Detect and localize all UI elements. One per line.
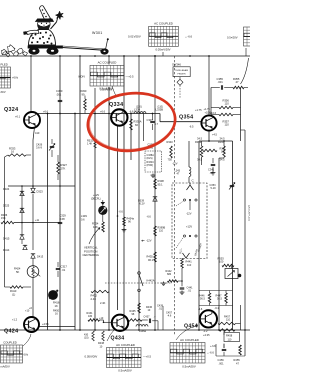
svg-text:110: 110 <box>226 319 231 322</box>
wire G2 tick <box>245 48 247 56</box>
svg-text:+-6.8: +-6.8 <box>210 345 216 348</box>
diode D323 <box>31 188 35 192</box>
svg-text:16: 16 <box>11 150 14 154</box>
svg-text:100: 100 <box>219 260 224 264</box>
svg-text:AC COUPLED: AC COUPLED <box>154 22 173 26</box>
wire rail x95 <box>94 88 96 114</box>
wire rail x60 <box>59 56 61 330</box>
svg-text:D323: D323 <box>37 190 44 194</box>
svg-text:.01: .01 <box>159 308 163 311</box>
svg-text:V/DIV: V/DIV <box>78 75 85 79</box>
wire rail x199 Q354 emitter column <box>198 141 200 330</box>
svg-text:10K: 10K <box>93 225 98 229</box>
wire rung y186 <box>8 185 75 187</box>
graticule G2 right edge (cut) <box>244 27 258 46</box>
resistor R456 boxed <box>224 333 240 342</box>
svg-text:680: 680 <box>167 273 172 276</box>
capacitor C326 variable <box>50 145 55 147</box>
svg-text:.001: .001 <box>56 92 62 96</box>
ground mid <box>123 228 125 230</box>
capacitor C341 <box>211 163 216 165</box>
svg-text:(10): (10) <box>84 337 89 340</box>
svg-text:W301: W301 <box>92 31 103 35</box>
svg-text:Q334: Q334 <box>109 102 123 108</box>
svg-text:.01: .01 <box>188 290 192 293</box>
svg-text:―+0.5: ―+0.5 <box>143 355 151 359</box>
svg-text:+6.6: +6.6 <box>100 109 106 113</box>
svg-text:C338A: C338A <box>147 154 155 157</box>
svg-text:34.5: 34.5 <box>197 137 203 141</box>
svg-text:(DECPL): (DECPL) <box>91 197 101 200</box>
svg-text:4.7: 4.7 <box>155 123 159 126</box>
diode D413 <box>31 254 35 258</box>
svg-text:150: 150 <box>221 151 226 154</box>
resistor R357 <box>219 113 233 116</box>
svg-text:+6.1: +6.1 <box>15 115 21 119</box>
graticule G1 top-middle <box>149 26 179 46</box>
transistor Q324 <box>24 112 40 128</box>
resistor R455b <box>239 345 242 355</box>
svg-text:2.4K: 2.4K <box>100 301 106 305</box>
wire leader G7-Q454 <box>176 325 198 340</box>
inductor L436 <box>136 325 148 327</box>
wire G2 leader curve <box>241 58 249 84</box>
svg-text:(1): (1) <box>12 292 15 296</box>
resistor R442 <box>168 280 179 283</box>
switch contact row 2 <box>183 235 185 237</box>
wire bottom horizontal bus -12V <box>0 329 250 331</box>
capacitor C456 <box>222 348 227 350</box>
svg-text:R458: R458 <box>226 334 233 338</box>
svg-text:↔-6.6: ↔-6.6 <box>185 35 193 39</box>
svg-text:AC COUPLED: AC COUPLED <box>98 61 117 65</box>
svg-text:3.6-9: 3.6-9 <box>36 146 42 150</box>
svg-text:+12V: +12V <box>186 225 192 229</box>
wire rung y222.5 <box>14 222 60 224</box>
svg-text:L436a: L436a <box>139 330 147 333</box>
potentiometer R424 <box>27 266 39 278</box>
resistor R435 <box>129 319 143 322</box>
wire rail x80 <box>79 56 81 330</box>
svg-text:K442A: K442A <box>147 279 155 283</box>
wire stub x143.5 <box>143 114 145 142</box>
capacitor C355 <box>220 85 222 90</box>
diode D339 zener <box>153 197 157 201</box>
wire rail x209 Q354 column <box>208 56 210 97</box>
svg-text:+10.6: +10.6 <box>205 112 212 115</box>
svg-text:0.5×/DIV: 0.5×/DIV <box>227 36 238 40</box>
wire leader G5-Q424 <box>23 334 31 346</box>
svg-text:0.68: 0.68 <box>60 217 66 221</box>
svg-text:+4.55: +4.55 <box>42 322 49 326</box>
graticule G6 bottom-middle <box>107 348 142 368</box>
svg-text:-0.6: -0.6 <box>119 211 124 214</box>
svg-text:-6.6: -6.6 <box>147 216 152 219</box>
resistor R436 <box>138 303 141 313</box>
svg-text:+4.35: +4.35 <box>203 333 210 337</box>
wire rail x124 <box>123 56 125 330</box>
svg-text:SW346: SW346 <box>172 63 181 67</box>
svg-text:R340: R340 <box>167 140 174 144</box>
svg-text:15K: 15K <box>1 216 6 220</box>
diode D415 <box>20 235 24 239</box>
switch contact row 1 <box>183 199 185 201</box>
svg-text:D414: D414 <box>3 248 10 252</box>
svg-text:/DIV: /DIV <box>1 90 6 94</box>
svg-text:110: 110 <box>159 230 164 233</box>
resistor R432 <box>91 290 109 293</box>
wire rail x155 <box>154 56 156 330</box>
svg-text:+11: +11 <box>35 219 40 222</box>
inductor L334 <box>134 112 146 114</box>
capacitor C330 <box>58 99 63 101</box>
wire rail x109 <box>108 56 110 65</box>
svg-text:0.6: 0.6 <box>81 217 85 221</box>
wire rail x117.5 <box>117 126 119 310</box>
wire rail x31 Q324 collector column <box>30 56 32 112</box>
capacitor C437 <box>148 319 150 324</box>
svg-text:0.5mA/DIV: 0.5mA/DIV <box>118 369 132 373</box>
svg-text:+4.5: +4.5 <box>212 134 218 137</box>
svg-text:110: 110 <box>228 338 232 341</box>
transistor Q424 <box>24 317 39 332</box>
resistor R356 <box>219 106 233 109</box>
diode D324 <box>20 191 24 195</box>
svg-text:34.5: 34.5 <box>220 158 226 162</box>
svg-text:―+0.5: ―+0.5 <box>126 75 134 79</box>
svg-text:THRU-BEAM: THRU-BEAM <box>175 69 188 72</box>
potentiometer R434 position <box>98 206 107 215</box>
svg-text:0.5mA/DIV: 0.5mA/DIV <box>100 88 113 92</box>
svg-text:.001: .001 <box>219 361 225 365</box>
transistor Q334 <box>111 109 127 125</box>
graticule G7 bottom-right <box>170 343 205 364</box>
svg-text:+1.2: +1.2 <box>12 318 18 322</box>
resistor R338 <box>154 179 157 189</box>
wire main signal path upper row <box>38 113 160 115</box>
svg-text:↔-6.6: ↔-6.6 <box>207 351 215 355</box>
svg-text:-12V: -12V <box>186 212 192 216</box>
svg-text:430: 430 <box>88 315 93 318</box>
switch wiper bottom <box>183 253 190 258</box>
svg-text:110: 110 <box>187 263 192 267</box>
capacitor C441 <box>180 287 185 289</box>
wire leader G4 down <box>112 86 116 96</box>
potentiometer R416 <box>48 290 57 299</box>
wire bottom right ties <box>216 355 245 357</box>
svg-text:+10: +10 <box>99 317 104 320</box>
resistor R456 on bus <box>219 329 235 332</box>
wire Q434 base drop <box>100 319 104 321</box>
svg-text:AC COUPLED: AC COUPLED <box>180 338 199 342</box>
resistor R334 10K <box>102 222 105 232</box>
svg-text:99: 99 <box>82 92 85 96</box>
inductor L343 <box>189 167 191 177</box>
wire G1 tick to bus <box>162 52 164 56</box>
graticule G5 bottom-left <box>1 345 23 363</box>
resistor R347 <box>223 146 226 157</box>
transistor Q434 <box>112 315 128 331</box>
junction dots <box>30 55 32 57</box>
svg-text:.01: .01 <box>62 268 66 272</box>
wire Q324 emitter column x33 <box>33 127 35 140</box>
svg-text:110: 110 <box>225 123 230 127</box>
wire rail x232 <box>232 141 234 330</box>
capacitor C337 <box>150 120 155 122</box>
svg-text:-6.5: -6.5 <box>189 125 194 129</box>
svg-text:+6.6: +6.6 <box>43 109 49 113</box>
doodle bushes left of scooter <box>2 49 8 55</box>
graticule G3 top-left (cut at edge) <box>0 67 11 88</box>
resistor R326 <box>1 221 14 224</box>
svg-text:+1.75: +1.75 <box>195 108 202 112</box>
switch beam finder dashed box <box>172 183 207 259</box>
svg-text:D415: D415 <box>3 237 10 241</box>
svg-text:Q324: Q324 <box>4 107 18 113</box>
svg-text:.001: .001 <box>218 80 224 84</box>
svg-text:AC COUPLED: AC COUPLED <box>116 343 135 347</box>
svg-text:(110): (110) <box>136 105 142 108</box>
resistor R433 <box>154 252 157 262</box>
svg-text:6.2V: 6.2V <box>140 203 145 206</box>
svg-text:Q424: Q424 <box>4 329 18 335</box>
resistor R413 <box>10 286 23 289</box>
svg-text:-12V: -12V <box>146 239 152 243</box>
svg-text:-1.2: -1.2 <box>203 329 208 333</box>
svg-text:R334C: R334C <box>147 161 155 164</box>
switch SW346 THRU-BEAM FINDER box <box>173 67 190 77</box>
node diamond below SW346 <box>179 77 181 80</box>
resistor R441 <box>181 259 184 269</box>
svg-text:FULL: FULL <box>180 247 183 254</box>
svg-text:Q434: Q434 <box>111 336 125 342</box>
wire diode column x33 <box>32 194 34 250</box>
svg-text:+6V±: +6V± <box>12 76 19 80</box>
wire rail x245 <box>244 130 246 356</box>
resistor R335A <box>130 119 133 130</box>
svg-text:56.5: 56.5 <box>200 298 205 301</box>
transistor Q454 <box>200 310 217 327</box>
resistor R447 <box>225 293 228 303</box>
wire leader G6-Q434 <box>107 330 114 341</box>
svg-text:27K: 27K <box>61 166 66 170</box>
meter box right <box>225 269 238 279</box>
wire rail x131 R335A branch <box>130 114 132 161</box>
svg-text:6V±: 6V± <box>24 353 29 357</box>
svg-text:95.1: 95.1 <box>158 182 164 186</box>
transistor Q354 <box>201 115 216 130</box>
wire x224 stub <box>223 330 225 335</box>
resistor R430 <box>92 331 95 341</box>
wire L343 column x189 <box>188 141 190 167</box>
svg-text:-6.1: -6.1 <box>215 307 220 310</box>
svg-text:5-19: 5-19 <box>211 187 217 190</box>
svg-text:0.05V/DIV: 0.05V/DIV <box>85 355 98 359</box>
svg-text:5K: 5K <box>16 270 19 274</box>
wire rail x75 <box>74 114 76 331</box>
svg-text:(110): (110) <box>158 105 164 108</box>
svg-text:C437: C437 <box>144 316 151 319</box>
svg-text:34.5: 34.5 <box>220 137 226 141</box>
svg-text:(DECOUPLED): (DECOUPLED) <box>248 205 250 221</box>
svg-text:(DLS): (DLS) <box>147 158 153 160</box>
resistor R355 <box>233 86 244 89</box>
svg-text:CENTERING: CENTERING <box>83 253 99 257</box>
svg-text:mA/DIV: mA/DIV <box>1 365 10 369</box>
svg-text:D324: D324 <box>3 187 10 191</box>
svg-text:-4.6: -4.6 <box>198 308 203 311</box>
svg-text:Q354: Q354 <box>179 115 193 121</box>
svg-text:Q454: Q454 <box>184 324 198 330</box>
resistor R434A <box>123 217 126 226</box>
svg-text:0.01V/DIV: 0.01V/DIV <box>128 35 141 39</box>
resistor R327 <box>57 162 60 174</box>
svg-text:C337: C337 <box>147 118 154 122</box>
wire rail x219 <box>218 158 220 330</box>
svg-text:96.1: 96.1 <box>148 258 154 262</box>
wire R446 R447 rung <box>199 290 233 292</box>
diode D325 <box>20 208 24 212</box>
svg-text:110: 110 <box>225 102 230 106</box>
cartoon wizard W301 riding scooter <box>40 6 51 20</box>
resistor R351 <box>203 149 217 152</box>
svg-text:COUPLED: COUPLED <box>3 341 17 345</box>
svg-text:1K: 1K <box>55 304 58 308</box>
wire rail x139 <box>138 56 140 330</box>
wire upper row step to Q354 base <box>159 114 161 122</box>
wire rail x47.5 <box>47 114 49 331</box>
svg-text:750: 750 <box>168 158 173 162</box>
wire Q424 emitter right <box>39 326 75 328</box>
resistor R457 <box>218 322 236 325</box>
svg-text:1.4K: 1.4K <box>87 143 92 146</box>
capacitor C317 <box>56 267 61 269</box>
resistor R553 <box>222 264 234 267</box>
wire emitter rung <box>199 140 233 142</box>
svg-text:R344: R344 <box>195 140 202 144</box>
wire diode column x22 <box>21 186 23 229</box>
svg-text:56.5: 56.5 <box>217 298 222 301</box>
svg-text:-4.6: -4.6 <box>167 315 172 318</box>
resistor R340 <box>170 146 173 158</box>
resistor R446 <box>208 293 211 303</box>
wire top horizontal bus +12V <box>0 55 250 57</box>
svg-text:(POR): (POR) <box>147 165 154 167</box>
wire dashed separator x174.5 <box>174 56 176 336</box>
wire left loop vertical <box>4 157 6 287</box>
relay K442A contacts <box>138 272 141 275</box>
svg-text:0.5mA/DIV: 0.5mA/DIV <box>182 364 196 368</box>
resistor R330 <box>84 99 87 110</box>
highlight red ellipse around Q334 <box>85 89 179 156</box>
svg-text:47: 47 <box>236 80 239 84</box>
svg-text:D325: D325 <box>3 204 10 208</box>
capacitor C353 variable <box>230 184 235 186</box>
resistor R438b <box>102 331 105 341</box>
resistor R334C block <box>145 151 162 172</box>
resistor R399 <box>154 226 157 236</box>
wire Q354 collector vertical <box>210 88 212 116</box>
resistor R333 <box>8 154 26 157</box>
svg-text:2.4K: 2.4K <box>91 297 97 301</box>
svg-text:0.05mV/DIV: 0.05mV/DIV <box>155 48 170 52</box>
svg-text:FINDER: FINDER <box>178 74 186 76</box>
switch wiper top <box>187 183 194 190</box>
svg-text:-12V: -12V <box>172 162 178 166</box>
svg-text:D413: D413 <box>37 255 44 259</box>
graticule G4 upper-middle <box>90 65 124 86</box>
svg-text:410: 410 <box>35 131 40 135</box>
resistor R344C <box>200 146 203 157</box>
svg-text:PLED: PLED <box>1 63 8 67</box>
diode D414 <box>23 245 27 249</box>
